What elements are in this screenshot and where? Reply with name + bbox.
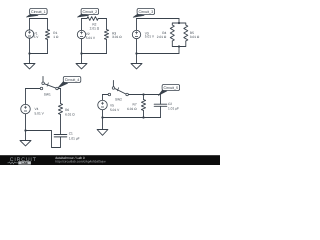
- label V3 name: [145, 32, 149, 36]
- svg-text:V2: V2: [86, 32, 90, 36]
- wire ground stub C1: [29, 54, 31, 64]
- node flag Circuit_1: [26, 9, 47, 18]
- capacitor C1: [54, 135, 67, 137]
- footer bar: [0, 155, 220, 165]
- wire ground stub C4: [25, 131, 27, 141]
- wire right upper C4: [60, 89, 62, 104]
- wire top-right C5: [128, 94, 160, 96]
- label V2 value: [86, 36, 95, 40]
- node flag Circuit_4: [58, 77, 81, 88]
- label R1 value: [53, 35, 58, 39]
- label C2 value: [168, 107, 179, 111]
- label V3 value: [145, 35, 154, 39]
- svg-text:SW1: SW1: [44, 93, 51, 97]
- wire right upper C2: [106, 19, 108, 30]
- svg-text:2.01 Ω: 2.01 Ω: [90, 27, 100, 31]
- label C2 name: [168, 103, 172, 107]
- wire top C1: [30, 18, 48, 20]
- label R3 value: [112, 36, 122, 40]
- wire ground stub C3: [136, 54, 138, 64]
- svg-text:5 V: 5 V: [34, 35, 39, 39]
- capacitor C2: [154, 104, 167, 106]
- svg-text:V1: V1: [34, 32, 38, 36]
- svg-text:Circuit_3: Circuit_3: [139, 10, 154, 14]
- wire ground stub C2: [81, 54, 83, 64]
- wire top-left C4: [26, 88, 41, 90]
- switch SW1 left terminal: [40, 87, 43, 90]
- switch SW2 throw terminal: [112, 87, 115, 90]
- switch SW1 throw terminal: [42, 82, 45, 85]
- svg-text:6.01 Ω: 6.01 Ω: [65, 113, 75, 117]
- svg-text:R7: R7: [133, 103, 137, 107]
- svg-text:5.01 V: 5.01 V: [145, 35, 154, 39]
- svg-text:V4: V4: [35, 108, 39, 112]
- junction dot gnd C3: [135, 52, 137, 54]
- wire bottom C2: [82, 53, 107, 55]
- wire R6-C1 C4: [60, 115, 62, 135]
- label R2 name: [92, 23, 96, 27]
- switch SW1 right terminal: [56, 87, 59, 90]
- voltage source V3: [132, 30, 140, 38]
- wire bottom C1: [30, 53, 48, 55]
- wire left upper C5: [102, 95, 104, 101]
- wire left upper C1: [29, 19, 31, 30]
- svg-text:R5: R5: [190, 31, 194, 35]
- svg-text:5.01 V: 5.01 V: [86, 36, 95, 40]
- footer title text: [55, 157, 85, 161]
- label R5 name: [190, 31, 194, 35]
- wire right lower C2: [106, 40, 108, 54]
- label R4 value: [157, 35, 167, 39]
- svg-text:5.01 V: 5.01 V: [110, 108, 119, 112]
- label R6 name: [65, 108, 69, 112]
- svg-text:6.01 Ω: 6.01 Ω: [127, 107, 137, 111]
- svg-text:3.01 Ω: 3.01 Ω: [190, 35, 200, 39]
- svg-text:Circuit_1: Circuit_1: [31, 10, 46, 14]
- wire center stub bottom C3: [178, 47, 180, 54]
- resistor R7: [141, 100, 145, 111]
- junction dot R7 top C5: [142, 93, 144, 95]
- wire left lower C5: [102, 110, 104, 118]
- switch SW1 lever: [45, 84, 56, 88]
- wire top C3: [137, 18, 180, 20]
- wire top-right C4: [58, 88, 60, 90]
- svg-text:2.01 Ω: 2.01 Ω: [157, 35, 167, 39]
- label V4 name: [35, 108, 39, 112]
- wire center stub top C3: [178, 19, 180, 24]
- wire top-right C2: [98, 18, 106, 20]
- svg-text:databahnour / Lab 0: databahnour / Lab 0: [55, 157, 85, 161]
- wire bottom C3: [137, 53, 180, 55]
- label R2 value: [90, 27, 100, 31]
- node flag Circuit_3: [133, 9, 154, 18]
- switch SW1 lever tick: [47, 83, 48, 86]
- svg-text:1.01 µF: 1.01 µF: [69, 137, 80, 141]
- switch SW2 right terminal: [126, 93, 129, 96]
- ground G1: [24, 64, 35, 69]
- resistor R1: [45, 30, 49, 40]
- label V4 value: [35, 112, 44, 116]
- label R6 value: [65, 113, 75, 117]
- resistor R2: [87, 17, 98, 21]
- label R7 name: [133, 103, 137, 107]
- wire right lower C1: [47, 40, 49, 54]
- label C1 name: [69, 132, 73, 136]
- ground G2: [76, 64, 87, 69]
- wire parallel bottom bar C3: [172, 41, 186, 47]
- wire right upper C5: [160, 95, 162, 105]
- label V2 name: [86, 32, 90, 36]
- voltage source V4: [21, 104, 31, 114]
- svg-text:5.01 V: 5.01 V: [35, 112, 44, 116]
- wire right lower C5: [160, 106, 162, 117]
- svg-text:1.01 µF: 1.01 µF: [168, 107, 179, 111]
- svg-text:http://circuitlab.com/c/kg4sh5: http://circuitlab.com/c/kg4sh5af5vjw: [55, 160, 106, 164]
- resistor R3: [104, 30, 108, 40]
- wire bottom C4: [26, 131, 61, 148]
- junction dot C1: [28, 52, 30, 54]
- ground G5: [97, 130, 108, 136]
- node flag Circuit_2: [77, 9, 98, 18]
- svg-text:R4: R4: [162, 31, 166, 35]
- junction dot C2: [80, 52, 82, 54]
- label V1 value: [34, 35, 39, 39]
- resistor R5: [184, 25, 188, 41]
- svg-text:Circuit_5: Circuit_5: [164, 86, 179, 90]
- svg-text:C2: C2: [168, 103, 172, 107]
- wire left lower C3: [136, 39, 138, 54]
- svg-text:R2: R2: [92, 23, 96, 27]
- svg-text:Circuit_4: Circuit_4: [65, 78, 80, 82]
- wire R7 upper C5: [143, 95, 145, 100]
- junction dot R7 bottom C5: [142, 116, 144, 118]
- label R5 value: [190, 35, 200, 39]
- label SW2: [115, 98, 122, 102]
- wire top-left C5: [103, 94, 109, 96]
- ground G3: [131, 64, 142, 69]
- switch SW2 lever: [115, 89, 126, 94]
- label C1 value: [69, 137, 80, 141]
- wire left upper C2: [81, 19, 83, 31]
- switch SW2 lever tick: [117, 88, 118, 91]
- wire left lower C4: [25, 114, 27, 131]
- node flag Circuit_5: [158, 85, 179, 96]
- svg-text:3.01 Ω: 3.01 Ω: [112, 36, 122, 40]
- svg-text:C1: C1: [69, 132, 73, 136]
- voltage source V5: [98, 100, 108, 110]
- label R1 name: [53, 31, 57, 35]
- label V5 name: [110, 104, 114, 108]
- junction dot top C3: [178, 22, 180, 24]
- wire R7 lower C5: [143, 111, 145, 118]
- footer logo CIRCUIT: [10, 157, 37, 163]
- wire left upper C3: [136, 19, 138, 31]
- svg-text:R1: R1: [53, 31, 57, 35]
- label V1 name: [34, 32, 38, 36]
- junction dot bottom C3: [178, 45, 180, 47]
- voltage source V1: [25, 30, 33, 38]
- wire left lower C2: [81, 39, 83, 54]
- switch SW2 throw stub: [112, 81, 114, 87]
- switch SW1 throw stub: [42, 77, 44, 82]
- ground G4: [20, 141, 31, 146]
- wire ground stub C5: [102, 118, 104, 130]
- footer logo zigzag: [7, 162, 18, 164]
- switch SW2 left terminal: [108, 93, 111, 96]
- voltage source V2: [77, 30, 85, 38]
- svg-text:R3: R3: [112, 32, 116, 36]
- wire bottom C5: [103, 117, 161, 119]
- svg-text:1 Ω: 1 Ω: [53, 35, 58, 39]
- wire left lower C1: [29, 38, 31, 53]
- footer url text: [55, 160, 106, 164]
- svg-text:R6: R6: [65, 108, 69, 112]
- wire top-left C2: [82, 18, 88, 20]
- label R4 name: [162, 31, 166, 35]
- junction dot C4: [24, 129, 26, 131]
- label SW1: [44, 93, 51, 97]
- label R3 name: [112, 32, 116, 36]
- svg-text:SW2: SW2: [115, 98, 122, 102]
- wire left upper C4: [25, 89, 27, 105]
- resistor R4: [170, 25, 174, 41]
- label V5 value: [110, 108, 119, 112]
- wire parallel top bar C3: [172, 23, 186, 25]
- svg-text:Circuit_2: Circuit_2: [83, 10, 98, 14]
- svg-text:V5: V5: [110, 104, 114, 108]
- junction dot gnd C5: [101, 116, 103, 118]
- footer logo LAB box: [18, 161, 31, 164]
- resistor R6: [58, 104, 62, 115]
- label R7 value: [127, 107, 137, 111]
- svg-text:LAB: LAB: [22, 162, 28, 165]
- wire right upper C1: [47, 19, 49, 30]
